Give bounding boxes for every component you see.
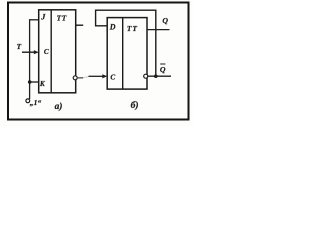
- wire J-K bus vertical: [29, 19, 31, 99]
- wire feedback Q-bar to D: [96, 10, 156, 76]
- svg-text:Q: Q: [162, 16, 168, 25]
- svg-text:Q: Q: [160, 65, 166, 74]
- dynamic input arrow on C of U1: [34, 50, 39, 54]
- svg-text:б): б): [131, 100, 139, 111]
- svg-text:TT: TT: [57, 14, 67, 23]
- svg-text:D: D: [109, 23, 116, 32]
- terminal logic-1 circle: [26, 99, 30, 103]
- svg-text:а): а): [55, 101, 63, 112]
- svg-text:C: C: [110, 73, 115, 81]
- flip-flop U1 (JK trigger, figure a) body: [39, 10, 76, 93]
- wire Q-bar output: [148, 75, 171, 77]
- wire Q output: [147, 29, 170, 31]
- U2 control-field divider: [122, 18, 124, 90]
- inversion bubble on U2 Q-bar output: [144, 74, 148, 78]
- flip-flop U2 (D trigger, figure b) body: [107, 18, 147, 90]
- wire Q output stub of U1: [76, 24, 84, 26]
- U1 control-field divider: [50, 10, 52, 93]
- junction on Q-bar wire: [154, 74, 158, 78]
- wire C input of U2: [89, 75, 105, 77]
- dynamic input arrow on C of U2: [102, 74, 107, 78]
- wire T input: [22, 51, 36, 53]
- svg-text:TT: TT: [127, 24, 138, 33]
- wire K input: [30, 81, 39, 83]
- svg-text:T: T: [17, 42, 22, 51]
- border frame: [8, 3, 189, 120]
- svg-text:C: C: [44, 48, 49, 56]
- inversion bubble on U1 Q-bar output: [73, 76, 77, 80]
- faint wire trace between figures: [84, 76, 89, 79]
- junction on K wire: [28, 80, 32, 84]
- wire J input: [30, 19, 39, 21]
- wire Q-bar stub of U1: [78, 77, 84, 79]
- overbar of Q-bar: [160, 63, 165, 65]
- svg-text:„1“: „1“: [30, 98, 42, 107]
